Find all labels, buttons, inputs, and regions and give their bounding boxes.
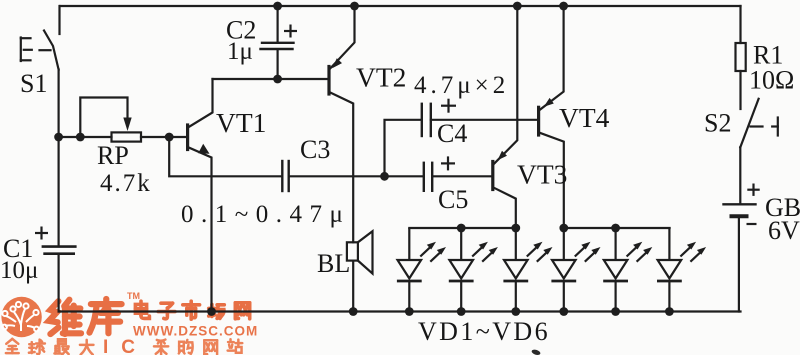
svg-text:IC: IC [103,337,148,355]
svg-text:10μ: 10μ [0,257,38,284]
svg-text:1μ: 1μ [227,38,253,65]
svg-text:S1: S1 [20,69,47,98]
svg-text:C5: C5 [438,185,468,214]
svg-text:VD1~VD6: VD1~VD6 [418,317,550,346]
svg-text:BL: BL [317,249,350,278]
svg-text:S2: S2 [704,109,731,138]
svg-text:6V: 6V [768,216,800,245]
svg-text:C4: C4 [437,119,467,148]
svg-text:VT4: VT4 [559,102,610,133]
svg-text:VT1: VT1 [216,107,266,138]
svg-text:VT3: VT3 [517,159,567,190]
svg-text:C3: C3 [300,135,330,164]
svg-text:4.7k: 4.7k [100,170,152,197]
svg-text:4.7μ×2: 4.7μ×2 [414,72,509,99]
svg-text:0.1~0.47μ: 0.1~0.47μ [181,201,350,228]
svg-text:10Ω: 10Ω [749,66,794,95]
svg-text:TM: TM [127,291,140,301]
svg-text:WWW.DZSC.COM: WWW.DZSC.COM [133,324,258,339]
svg-text:RP: RP [97,141,129,170]
svg-text:VT2: VT2 [356,62,406,93]
